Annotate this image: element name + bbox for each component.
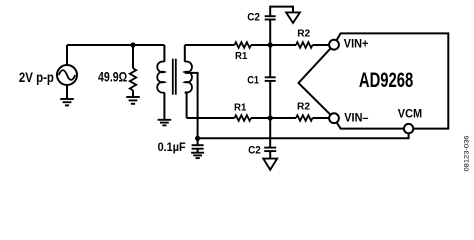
op-amp/ADC block AD9268 outline bbox=[299, 33, 449, 128]
wire R2 to VIN+ bbox=[313, 44, 330, 46]
svg-text:VIN+: VIN+ bbox=[344, 39, 369, 51]
pin VIN+ terminal circle bbox=[329, 40, 339, 50]
svg-text:2V p-p: 2V p-p bbox=[19, 69, 54, 85]
svg-text:C2: C2 bbox=[247, 11, 260, 23]
wire secondary bottom to R1 bbox=[187, 117, 235, 119]
wire VCM to tap node bbox=[198, 133, 409, 138]
ground triangle (C2 bottom) bbox=[263, 159, 277, 170]
transformer T1 core bbox=[173, 59, 176, 95]
wire secondary top to VIN+ bbox=[185, 44, 235, 46]
capacitor C1 bbox=[265, 45, 276, 118]
svg-text:08123-036: 08123-036 bbox=[463, 135, 470, 171]
wire source to ground bbox=[66, 85, 68, 99]
node bottom junction bbox=[268, 115, 273, 120]
wire R2 to VIN- bbox=[313, 117, 330, 119]
wire R1 to bottom node bbox=[251, 117, 296, 119]
ground (transformer primary) bbox=[158, 120, 172, 126]
capacitor C2 (top) bbox=[265, 7, 293, 45]
svg-text:C2: C2 bbox=[248, 145, 261, 157]
node junction source/R termination bbox=[130, 42, 135, 47]
svg-text:R2: R2 bbox=[297, 101, 310, 113]
capacitor 0.1uF bbox=[192, 138, 204, 152]
transformer T1 secondary winding bbox=[185, 45, 192, 118]
capacitor C2 (bottom) bbox=[264, 118, 276, 159]
wire secondary center tap bbox=[185, 73, 198, 138]
ground triangle (C2 top) bbox=[286, 12, 300, 23]
svg-text:49.9Ω: 49.9Ω bbox=[98, 70, 127, 85]
resistor 49.9 ohm bbox=[130, 45, 136, 97]
wire source top to transformer primary bbox=[67, 44, 164, 46]
svg-text:AD9268: AD9268 bbox=[359, 69, 414, 92]
svg-text:0.1µF: 0.1µF bbox=[158, 142, 186, 154]
node top junction bbox=[268, 42, 273, 47]
pin VIN- terminal circle bbox=[329, 113, 339, 123]
ground (49.9 ohm) bbox=[126, 97, 140, 104]
svg-text:R1: R1 bbox=[234, 101, 246, 113]
pin VCM terminal circle bbox=[404, 124, 413, 133]
resistor R2 (bottom) bbox=[296, 115, 313, 121]
transformer T1 primary winding bbox=[157, 45, 164, 119]
resistor R1 (bottom) bbox=[235, 115, 252, 121]
svg-text:VIN–: VIN– bbox=[344, 112, 369, 124]
wire R1 to top node bbox=[251, 44, 296, 46]
svg-text:R1: R1 bbox=[235, 50, 247, 62]
wire source vertical bbox=[66, 45, 68, 65]
source V1 2V p-p bbox=[57, 65, 77, 85]
ground (0.1uF) bbox=[191, 153, 204, 158]
svg-text:VCM: VCM bbox=[398, 109, 422, 121]
ground (source) bbox=[60, 99, 74, 105]
node tap/VCM/0.1uF junction bbox=[195, 136, 200, 141]
resistor R1 (top) bbox=[235, 42, 252, 48]
resistor R2 (top) bbox=[296, 42, 313, 48]
svg-text:C1: C1 bbox=[247, 75, 259, 87]
svg-text:R2: R2 bbox=[297, 27, 310, 39]
